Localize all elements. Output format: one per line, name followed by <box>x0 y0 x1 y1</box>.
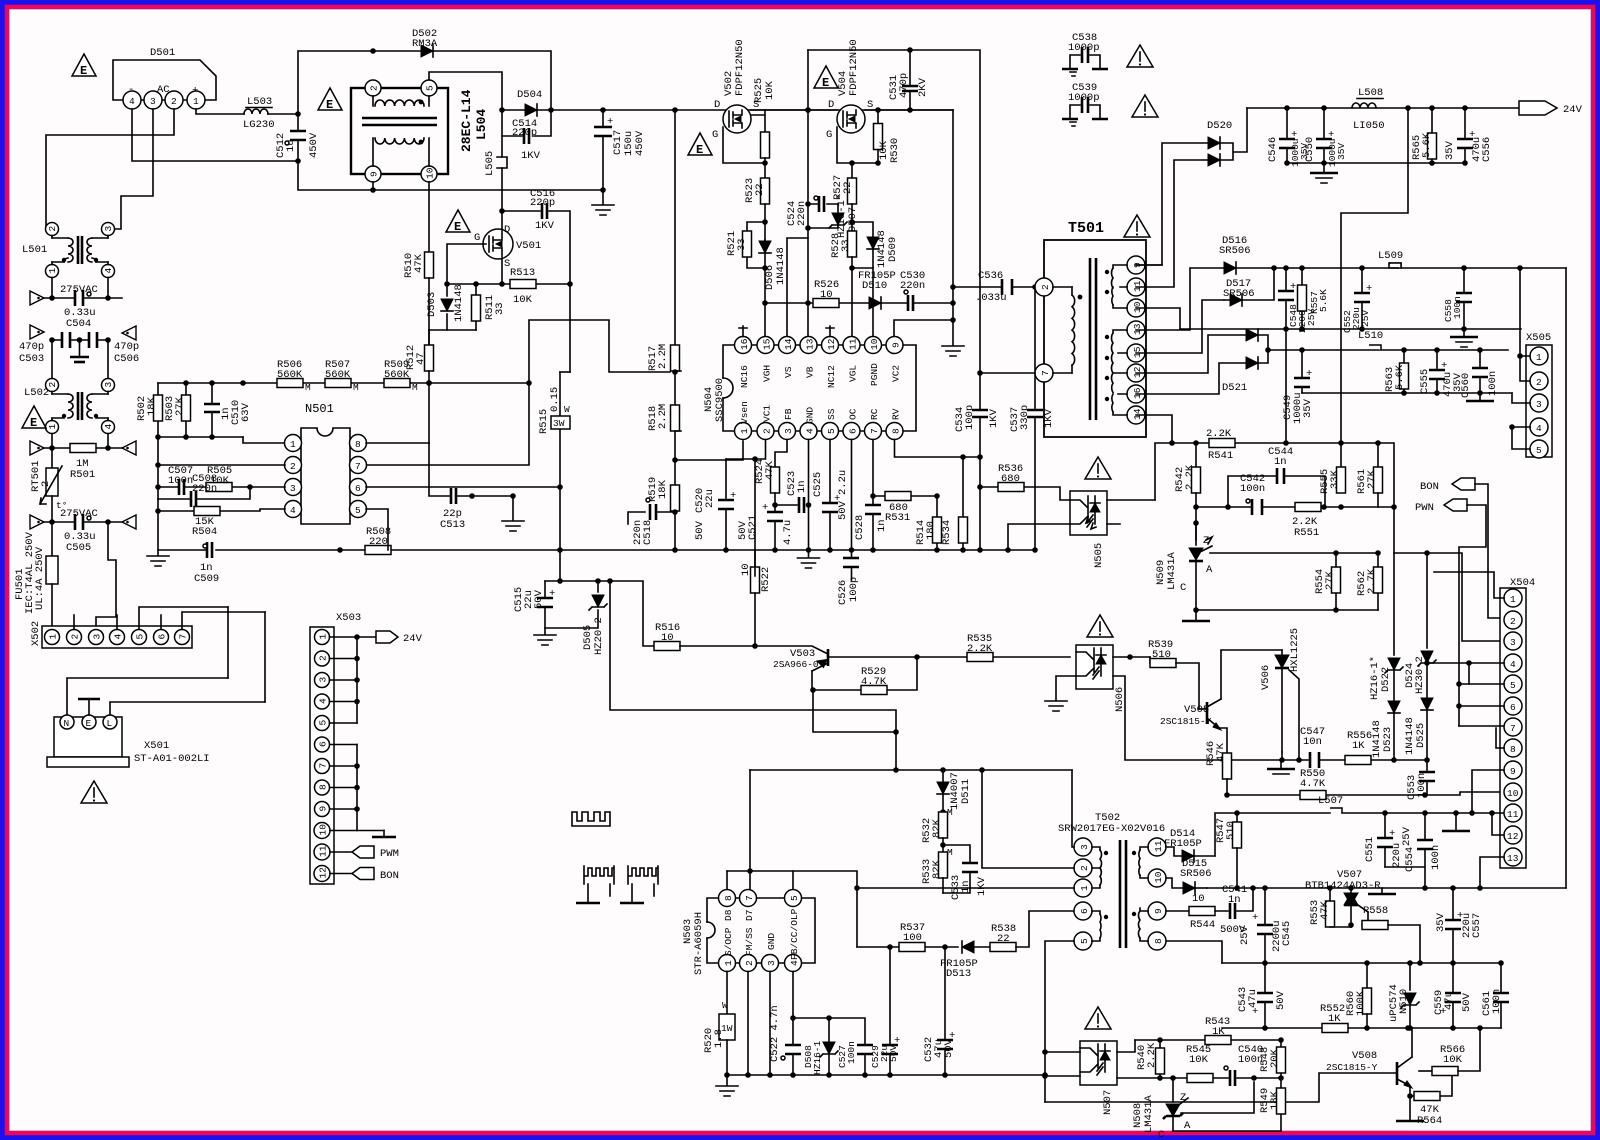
MOSFET V501 <box>474 211 541 270</box>
svg-text:GND: GND <box>805 407 816 424</box>
resistor R565 <box>1411 108 1437 163</box>
staircase to divider <box>529 320 670 383</box>
svg-text:Z: Z <box>1180 1092 1186 1104</box>
diode D504 <box>517 89 542 116</box>
svg-text:560K: 560K <box>277 369 303 381</box>
svg-text:4: 4 <box>1510 659 1516 670</box>
svg-text:13: 13 <box>1132 323 1143 335</box>
resistor R525 <box>753 78 776 178</box>
zener D505 <box>534 581 607 655</box>
opto N506 <box>1076 645 1126 712</box>
capacitor C546 <box>1267 108 1310 167</box>
resistor R535 <box>917 656 1070 658</box>
svg-text:2: 2 <box>40 481 52 487</box>
svg-text:5.6K: 5.6K <box>1318 289 1329 312</box>
svg-text:L505: L505 <box>484 151 496 176</box>
inductor L508 <box>1352 87 1385 132</box>
fuse FU501 <box>14 522 58 630</box>
svg-text:RV: RV <box>891 408 902 420</box>
svg-text:2: 2 <box>1536 377 1542 388</box>
svg-text:N507: N507 <box>1102 1090 1114 1115</box>
diode D516 <box>1136 235 1251 330</box>
zener D508 <box>793 1018 838 1075</box>
source vertical down to R515 <box>560 284 570 581</box>
zener D507 <box>808 194 859 238</box>
resistor R502 <box>136 383 163 437</box>
svg-text:FM/SS: FM/SS <box>744 927 755 956</box>
svg-text:50V: 50V <box>694 520 706 540</box>
pin4 GND <box>808 440 810 551</box>
X505 wiring <box>1520 268 1530 381</box>
svg-text:22: 22 <box>842 181 854 194</box>
svg-text:4: 4 <box>113 634 124 640</box>
svg-text:4: 4 <box>103 268 114 274</box>
svg-text:6: 6 <box>1510 702 1516 713</box>
capacitor C517 <box>594 110 646 190</box>
svg-text:R504: R504 <box>192 526 217 538</box>
svg-text:BTB1424AD3-R: BTB1424AD3-R <box>1305 880 1381 892</box>
svg-text:+: + <box>1389 828 1395 840</box>
resistor R557 <box>1298 268 1330 329</box>
svg-text:18K: 18K <box>1269 1090 1281 1110</box>
svg-text:D513: D513 <box>946 968 971 980</box>
R543 row <box>1135 1039 1281 1041</box>
ground rail y=550 with C509 and R508 <box>158 511 675 550</box>
capacitor C543 <box>1237 963 1287 1028</box>
svg-text:5: 5 <box>789 895 800 901</box>
svg-text:24V: 24V <box>1563 104 1583 116</box>
svg-text:STR-A6059H: STR-A6059H <box>693 912 705 975</box>
svg-text:VC1: VC1 <box>762 405 773 422</box>
svg-text:1: 1 <box>723 960 734 966</box>
capacitor C531 <box>888 47 929 110</box>
svg-text:13: 13 <box>1507 853 1519 864</box>
svg-text:N501: N501 <box>305 402 334 416</box>
E triangle top-left <box>72 54 96 78</box>
svg-text:T501: T501 <box>1068 220 1104 237</box>
svg-text:9: 9 <box>369 171 380 177</box>
svg-text:2: 2 <box>1510 616 1516 627</box>
svg-text:2.2K: 2.2K <box>967 643 993 655</box>
svg-text:1: 1 <box>290 439 296 450</box>
svg-text:4.7K: 4.7K <box>861 676 887 688</box>
resistor R561 <box>1356 443 1383 507</box>
T502 pin2 pin1 wires <box>982 770 1074 868</box>
svg-text:N: N <box>64 718 70 729</box>
svg-text:C503: C503 <box>19 353 44 365</box>
svg-text:100n: 100n <box>1491 989 1503 1014</box>
svg-text:100p: 100p <box>964 405 976 430</box>
svg-text:14: 14 <box>1132 408 1143 420</box>
svg-text:3: 3 <box>766 960 777 966</box>
svg-text:+: + <box>762 502 768 514</box>
N501 pin8 wire <box>366 442 429 444</box>
svg-text:330p: 330p <box>1019 405 1031 430</box>
svg-text:1000p: 1000p <box>1068 42 1100 54</box>
svg-text:C546: C546 <box>1267 137 1279 162</box>
diode D517 <box>1136 268 1274 353</box>
svg-text:100n: 100n <box>1416 773 1428 798</box>
R504 row to pin4 <box>155 499 285 538</box>
svg-text:D503: D503 <box>426 292 438 317</box>
svg-text:8: 8 <box>723 895 734 901</box>
svg-text:10: 10 <box>1132 301 1143 313</box>
svg-text:4: 4 <box>290 505 296 516</box>
VC2 wire <box>894 320 953 339</box>
V505 collector to V506 <box>1221 650 1282 699</box>
svg-text:35V: 35V <box>1435 912 1447 932</box>
svg-text:82K: 82K <box>931 818 943 838</box>
svg-text:5: 5 <box>318 720 329 726</box>
svg-text:RM3A: RM3A <box>412 38 438 50</box>
svg-text:22u: 22u <box>704 489 716 508</box>
row 507 with C542 R551 <box>1196 506 1394 508</box>
svg-text:R564: R564 <box>1417 1115 1442 1127</box>
svg-text:1: 1 <box>1510 594 1516 605</box>
connector X505 <box>1526 332 1552 458</box>
svg-text:1N4148: 1N4148 <box>453 284 465 322</box>
svg-text:C550: C550 <box>1304 137 1316 162</box>
24V output rail <box>1247 107 1519 109</box>
capacitor C516 <box>499 188 570 284</box>
svg-text:7: 7 <box>1510 723 1516 734</box>
12V rail <box>1236 267 1566 269</box>
svg-text:SR506: SR506 <box>1180 868 1212 880</box>
svg-text:L501: L501 <box>22 244 47 256</box>
svg-text:4: 4 <box>129 96 135 107</box>
resistor R528 <box>830 231 857 268</box>
svg-text:25V: 25V <box>1360 310 1371 327</box>
svg-text:47: 47 <box>415 352 427 365</box>
V505 emitter to R546 <box>1205 728 1232 795</box>
svg-text:27K: 27K <box>174 396 186 416</box>
lower rail of second output <box>1302 392 1512 394</box>
svg-text:NC16: NC16 <box>739 365 750 388</box>
svg-text:8: 8 <box>1153 938 1164 944</box>
svg-text:2: 2 <box>290 461 296 472</box>
svg-text:11: 11 <box>318 845 329 857</box>
svg-text:LM431A: LM431A <box>1166 551 1178 590</box>
resistor R563 <box>1384 350 1409 393</box>
row 760: C547 R556 <box>1267 726 1427 774</box>
svg-text:15: 15 <box>1132 346 1143 358</box>
svg-text:1K: 1K <box>1212 1026 1225 1038</box>
svg-text:FDPF12N50: FDPF12N50 <box>734 39 746 96</box>
AC inlet X501 <box>47 607 265 767</box>
svg-text:C522 4.7n: C522 4.7n <box>769 1005 781 1062</box>
svg-text:11: 11 <box>1132 280 1143 292</box>
svg-text:RC: RC <box>869 408 880 420</box>
svg-text:20K: 20K <box>1269 1048 1281 1068</box>
resistor R539 <box>1148 639 1199 709</box>
capacitor C550 <box>1304 108 1347 167</box>
divider R517 R518 R519 <box>647 110 681 463</box>
svg-text:D7: D7 <box>744 910 755 921</box>
svg-text:47K: 47K <box>1215 742 1227 762</box>
capacitor C549 <box>1282 350 1314 424</box>
resistor R522 <box>740 550 772 646</box>
thermistor RT501 <box>30 448 67 522</box>
svg-text:7: 7 <box>355 461 361 472</box>
svg-text:2SC1815-Y: 2SC1815-Y <box>1160 716 1212 727</box>
svg-text:7: 7 <box>318 763 329 769</box>
capacitor C542 <box>1240 473 1265 515</box>
svg-text:2: 2 <box>762 428 773 434</box>
svg-text:6: 6 <box>848 428 859 434</box>
svg-text:NC12: NC12 <box>826 365 837 388</box>
svg-text:16: 16 <box>1132 387 1143 399</box>
svg-text:1: 1 <box>739 428 750 434</box>
R537 row <box>857 922 958 952</box>
svg-text:680: 680 <box>1001 473 1020 485</box>
capacitor C561 <box>1481 963 1509 1028</box>
connector X503 <box>310 612 361 884</box>
svg-text:47K: 47K <box>1319 900 1331 920</box>
svg-text:560K: 560K <box>325 369 351 381</box>
bridge rectifier D501 <box>113 47 216 109</box>
cap C505 row 275VAC <box>30 508 136 554</box>
svg-text:+: + <box>1252 912 1258 924</box>
svg-text:E: E <box>86 718 92 729</box>
svg-text:2: 2 <box>369 85 380 91</box>
pin2 VC1 with C520 <box>694 440 766 577</box>
V502 source to R525 <box>751 110 765 132</box>
svg-text:11: 11 <box>1507 809 1519 820</box>
inductor L509 <box>1378 250 1403 268</box>
svg-text:LM431A: LM431A <box>1143 1094 1155 1133</box>
svg-text:X501: X501 <box>144 740 169 752</box>
svg-text:FB/CC/OLP: FB/CC/OLP <box>789 908 800 960</box>
svg-text:33K: 33K <box>1329 469 1341 489</box>
svg-text:2: 2 <box>47 226 58 232</box>
svg-text:1: 1 <box>47 424 58 430</box>
resistor R566 <box>1419 1028 1480 1076</box>
resistor R544 row with C541 <box>1166 884 1253 936</box>
svg-text:V501: V501 <box>516 240 541 252</box>
MOSFET V504 <box>826 39 873 141</box>
svg-text:35V: 35V <box>1302 398 1314 418</box>
N506 out to R539 <box>1113 656 1150 658</box>
svg-text:2KV: 2KV <box>917 77 929 97</box>
V504 gate <box>837 127 878 163</box>
svg-text:+: + <box>1366 283 1372 295</box>
svg-text:3: 3 <box>290 483 296 494</box>
E triangle near V501 <box>446 210 470 234</box>
right edge long vertical <box>1565 268 1567 888</box>
svg-text:GND: GND <box>766 933 777 950</box>
wire top rail <box>298 51 551 114</box>
bottom rail <box>1173 1130 1281 1132</box>
svg-text:220p: 220p <box>530 197 555 209</box>
R541 row <box>1155 443 1378 500</box>
svg-text:25V: 25V <box>1401 826 1413 846</box>
svg-text:VGL: VGL <box>848 365 859 382</box>
svg-text:10: 10 <box>1507 788 1519 799</box>
transistor V508 <box>1045 1028 1424 1121</box>
svg-text:R551: R551 <box>1294 527 1319 539</box>
svg-text:2: 2 <box>1079 865 1090 871</box>
secondary winding 1 pins 9 11 10 <box>1127 256 1145 274</box>
capacitor C551 <box>1364 813 1413 868</box>
svg-text:1: 1 <box>1536 352 1542 363</box>
resistor R512 <box>405 330 434 443</box>
N506 ground <box>1056 676 1076 700</box>
svg-text:SR506: SR506 <box>1219 245 1251 257</box>
svg-text:L504: L504 <box>474 109 489 140</box>
wire to N504 pin10 <box>872 268 874 339</box>
svg-text:C551: C551 <box>1364 837 1376 862</box>
svg-text:10K: 10K <box>764 80 776 100</box>
resistor R511 <box>472 284 507 330</box>
svg-text:M: M <box>412 382 418 393</box>
svg-text:2.2K: 2.2K <box>1184 464 1196 490</box>
svg-text:C518: C518 <box>642 520 654 545</box>
svg-text:M: M <box>947 847 953 858</box>
svg-text:9: 9 <box>318 806 329 812</box>
resistor R562 <box>1356 553 1383 610</box>
svg-text:Z: Z <box>1203 535 1209 547</box>
resistor R501 row <box>30 441 136 481</box>
svg-text:35V: 35V <box>1336 143 1347 160</box>
svg-text:R534: R534 <box>941 520 953 545</box>
svg-text:5.6K: 5.6K <box>1394 364 1406 390</box>
thyristor V506 <box>1260 628 1302 763</box>
svg-text:0.15: 0.15 <box>549 387 561 412</box>
svg-text:2: 2 <box>70 634 81 640</box>
24V sense line down <box>1341 108 1408 467</box>
svg-text:470p: 470p <box>19 341 44 353</box>
svg-text:4: 4 <box>103 424 114 430</box>
svg-text:8: 8 <box>355 439 361 450</box>
E triangle <box>318 88 342 112</box>
resistor R516 <box>654 622 680 651</box>
svg-text:10: 10 <box>869 338 880 350</box>
svg-text:D509: D509 <box>887 237 899 262</box>
wire D501 pin4 to bottom rail <box>132 109 298 161</box>
svg-text:1KV: 1KV <box>535 220 555 232</box>
svg-text:D510: D510 <box>862 280 887 292</box>
pin6 OC <box>851 440 853 551</box>
svg-text:3: 3 <box>1079 844 1090 850</box>
shunt N509 LM431A <box>1155 523 1213 610</box>
triac V507 <box>1305 869 1381 927</box>
svg-text:11: 11 <box>848 338 859 350</box>
svg-text:C555: C555 <box>1419 369 1431 394</box>
svg-text:6: 6 <box>1079 908 1090 914</box>
svg-text:2.2M: 2.2M <box>657 404 669 429</box>
svg-text:100p: 100p <box>848 577 860 602</box>
svg-text:M: M <box>305 382 311 393</box>
N506 phototransistor emitter wire <box>1113 676 1281 760</box>
svg-text:L510: L510 <box>1358 330 1383 342</box>
svg-text:D521: D521 <box>1222 382 1247 394</box>
switching node vertical x=808 <box>807 110 809 339</box>
svg-text:47u: 47u <box>1443 991 1455 1010</box>
svg-text:C554: C554 <box>1404 847 1416 872</box>
svg-text:10: 10 <box>1192 893 1205 905</box>
resistor R549 <box>1259 1078 1286 1131</box>
C544 loop <box>1228 446 1325 507</box>
svg-text:10: 10 <box>661 632 674 644</box>
wires to L502 <box>52 340 108 379</box>
svg-text:V505: V505 <box>1184 704 1209 716</box>
svg-text:50V: 50V <box>533 589 545 609</box>
sense loop wire from R515 row to rail 770 <box>610 581 896 770</box>
svg-text:35V: 35V <box>1444 140 1456 160</box>
pin4 with C522 <box>769 972 801 1076</box>
T501 pin10 to lower rail <box>1136 308 1180 329</box>
T501 pin7 wire to x980 <box>980 372 1035 374</box>
svg-text:47u: 47u <box>1247 989 1259 1008</box>
svg-text:275VAC: 275VAC <box>60 284 98 296</box>
svg-text:3: 3 <box>103 226 114 232</box>
svg-text:OC: OC <box>848 408 859 420</box>
E triangle left of V504 <box>814 66 838 90</box>
capacitor C557 <box>1435 888 1483 963</box>
svg-text:47K: 47K <box>764 460 776 480</box>
svg-text:8: 8 <box>318 784 329 790</box>
svg-text:C557: C557 <box>1471 913 1483 938</box>
svg-text:50V: 50V <box>837 500 849 520</box>
svg-text:5: 5 <box>1079 938 1090 944</box>
transformer T502 <box>1058 812 1166 950</box>
capacitor C510 <box>204 383 252 437</box>
svg-text:2.7K: 2.7K <box>1366 568 1378 594</box>
svg-text:5: 5 <box>826 428 837 434</box>
resistor R547 <box>1215 813 1242 888</box>
svg-text:100n: 100n <box>846 1041 857 1064</box>
svg-text:100: 100 <box>903 932 922 944</box>
ground at C517 <box>602 190 604 204</box>
svg-text:1KV: 1KV <box>988 408 1000 428</box>
svg-text:27K: 27K <box>1366 469 1378 489</box>
svg-text:7: 7 <box>744 895 755 901</box>
svg-text:5: 5 <box>355 505 361 516</box>
svg-text:3: 3 <box>150 96 156 107</box>
svg-text:1: 1 <box>48 634 59 640</box>
resistor R507 <box>325 359 359 393</box>
svg-text:D525: D525 <box>1415 723 1427 748</box>
svg-text:450V: 450V <box>634 130 646 156</box>
svg-text:G: G <box>712 129 718 141</box>
capacitor C559 <box>1433 963 1473 1028</box>
svg-text:560K: 560K <box>384 369 410 381</box>
X503 pin wires and tags <box>330 631 423 882</box>
wire VGL pin11 <box>851 268 853 339</box>
svg-text:2SA966-0: 2SA966-0 <box>773 659 819 670</box>
capacitor C537 <box>1009 287 1055 550</box>
C538 C539 EMI caps <box>1062 32 1153 76</box>
N509 ref row <box>1210 552 1378 554</box>
svg-text:+: + <box>730 490 736 502</box>
svg-text:9: 9 <box>1153 908 1164 914</box>
rail 770 <box>750 769 1072 771</box>
warning triangle below X501 <box>81 781 107 803</box>
capacitor C553 <box>1406 760 1435 800</box>
svg-text:10: 10 <box>1153 871 1164 883</box>
svg-text:D8: D8 <box>723 909 734 921</box>
IC N503 STR-A6059H <box>682 890 815 976</box>
diode D515 <box>1166 858 1212 894</box>
svg-text:3: 3 <box>1536 399 1542 410</box>
svg-text:HXL1225: HXL1225 <box>1289 628 1301 672</box>
svg-text:V508: V508 <box>1352 1050 1377 1062</box>
capacitor C548 <box>1278 268 1317 443</box>
transistor V505 <box>1160 699 1221 730</box>
svg-text:1N4148: 1N4148 <box>775 247 787 285</box>
opto N505 <box>1070 491 1155 568</box>
main rail y=110 <box>502 109 953 111</box>
